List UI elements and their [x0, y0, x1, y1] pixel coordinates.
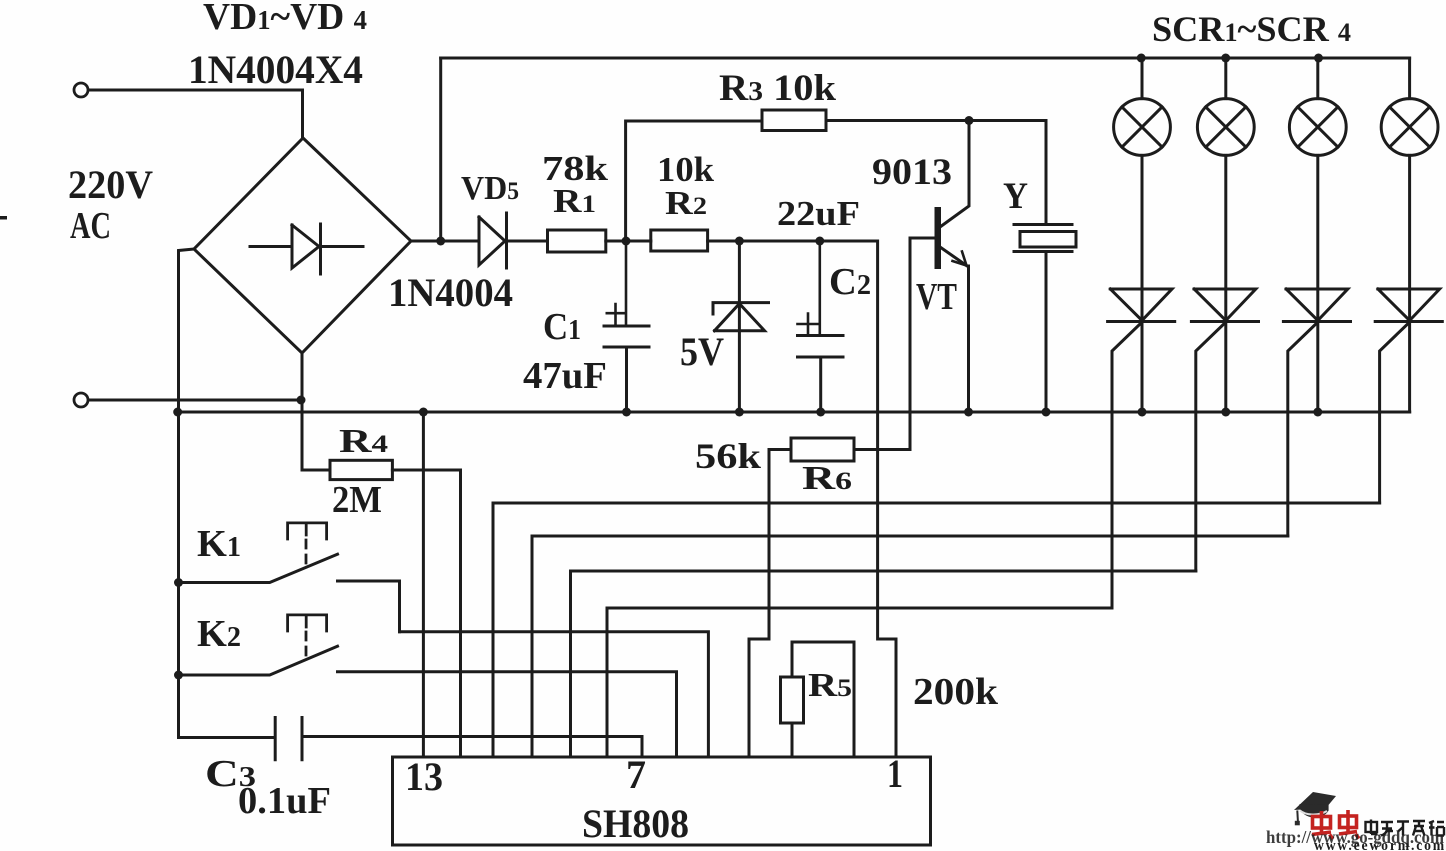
wire pin13 vertical [422, 412, 425, 756]
wire K2 to pin8 [338, 672, 677, 756]
svg-text:1: 1 [887, 751, 903, 796]
svg-text:R5: R5 [808, 667, 852, 704]
wire [179, 249, 195, 738]
svg-text:7: 7 [626, 752, 646, 797]
junction [174, 578, 183, 587]
junction [735, 237, 744, 246]
wire bridge out to VD5 node [411, 240, 479, 243]
wire R4 to pin2 [392, 470, 460, 756]
terminal input bottom [74, 393, 88, 407]
wire [1316, 155, 1319, 289]
svg-text:SH808: SH808 [582, 801, 689, 846]
capacitor C3 [179, 718, 303, 760]
switch K2 [179, 615, 338, 675]
wire K1 to pin9 [400, 632, 709, 756]
svg-text:22uF: 22uF [777, 194, 860, 233]
SCR4 [1375, 289, 1442, 503]
svg-text:VD1~VD 4: VD1~VD 4 [203, 0, 367, 38]
wire R6 left to pin10 [749, 450, 791, 757]
resistor R3 [762, 110, 826, 131]
svg-text:R6: R6 [802, 460, 852, 497]
svg-text:R4: R4 [339, 423, 389, 460]
svg-text:5V: 5V [680, 329, 724, 374]
svg-text:K2: K2 [197, 613, 241, 655]
junction [1314, 54, 1323, 63]
wire riser to top rail [439, 58, 442, 241]
resistor R1 [548, 230, 606, 252]
scan artifact dash [0, 216, 7, 220]
resistor R5 with loop [781, 642, 855, 756]
svg-text:www.eeworm.com: www.eeworm.com [1314, 838, 1446, 851]
wire bus4 to SCR1 gate [607, 608, 1112, 756]
svg-text:200k: 200k [913, 671, 999, 713]
wire bus2 to SCR3 gate [532, 536, 1288, 756]
wire bridge bottom to R4 [302, 353, 330, 470]
junction [173, 408, 182, 417]
terminal input top [74, 83, 88, 97]
watermark text dianzi xiazaizhan (black) [1366, 820, 1445, 836]
switch K1 [179, 523, 400, 632]
junction [1137, 54, 1146, 63]
SCR1 [1108, 289, 1175, 608]
wire [1408, 155, 1411, 289]
capacitor C1 [604, 241, 649, 412]
svg-text:C2: C2 [829, 261, 871, 303]
svg-text:SCR1~SCR 4: SCR1~SCR 4 [1152, 9, 1351, 49]
wire [1141, 155, 1144, 289]
junction [1138, 408, 1147, 417]
resistor R6 [791, 438, 854, 461]
junction [1221, 408, 1230, 417]
lamp 1 [1114, 58, 1171, 155]
zener diode 5V [713, 241, 769, 412]
junction [622, 237, 631, 246]
svg-text:K1: K1 [197, 523, 241, 565]
svg-text:R3 10k: R3 10k [719, 68, 836, 109]
wire bottom rail [178, 411, 1410, 414]
wire C3 to pin7 [302, 737, 642, 757]
svg-text:C1: C1 [543, 306, 581, 348]
svg-text:10k: 10k [657, 150, 715, 189]
watermark text chong chong (red) [1312, 810, 1359, 839]
svg-text:R1: R1 [553, 183, 596, 220]
diode VD5 [479, 213, 547, 268]
svg-text:13: 13 [405, 754, 443, 799]
svg-text:R2: R2 [665, 185, 707, 222]
svg-text:VT: VT [916, 276, 957, 318]
watermark logo graduation cap [1294, 792, 1336, 825]
svg-text:1N4004X4: 1N4004X4 [188, 47, 363, 92]
junction [419, 408, 428, 417]
wire [1224, 155, 1227, 289]
svg-text:0.1uF: 0.1uF [238, 780, 331, 822]
junction [1313, 408, 1322, 417]
resistor R4 [330, 460, 392, 479]
SCR3 [1283, 289, 1350, 536]
wire top rail [441, 57, 1410, 60]
wire R3 branch riser [626, 121, 762, 241]
junction [436, 237, 445, 246]
junction [965, 116, 974, 125]
bridge rectifier VD1-VD4 [194, 138, 411, 353]
wire R6 right to base node [854, 448, 910, 451]
wire [89, 399, 302, 402]
wire R3 to crystal [826, 121, 1046, 225]
lamp 2 [1197, 58, 1254, 155]
svg-text:47uF: 47uF [523, 355, 607, 397]
wire [89, 90, 303, 138]
svg-text:56k: 56k [695, 436, 761, 476]
capacitor C2 [798, 241, 844, 412]
svg-text:9013: 9013 [872, 152, 952, 193]
junction [622, 408, 631, 417]
svg-text:2M: 2M [332, 479, 382, 521]
junction [964, 408, 973, 417]
SCR2 [1191, 289, 1258, 571]
junction [174, 671, 183, 680]
svg-text:AC: AC [70, 205, 111, 247]
crystal Y [1014, 225, 1076, 413]
lamp 4 [1381, 58, 1438, 155]
svg-text:220V: 220V [68, 162, 153, 207]
svg-text:VD5: VD5 [461, 170, 519, 207]
wire bus1 to SCR4 gate [493, 503, 1380, 756]
wire bus3 to SCR2 gate [571, 571, 1196, 756]
junction [816, 408, 825, 417]
wire [606, 240, 651, 243]
svg-text:Y: Y [1003, 176, 1028, 217]
resistor R2 [651, 230, 708, 251]
svg-text:1N4004: 1N4004 [388, 270, 513, 315]
junction [1221, 54, 1230, 63]
junction [1042, 408, 1051, 417]
wire main node [708, 241, 896, 756]
junction [815, 237, 824, 246]
junction [297, 396, 306, 405]
junction [735, 408, 744, 417]
IC SH808 [393, 757, 931, 845]
lamp 3 [1289, 58, 1346, 155]
transistor VT 9013 [910, 121, 969, 450]
